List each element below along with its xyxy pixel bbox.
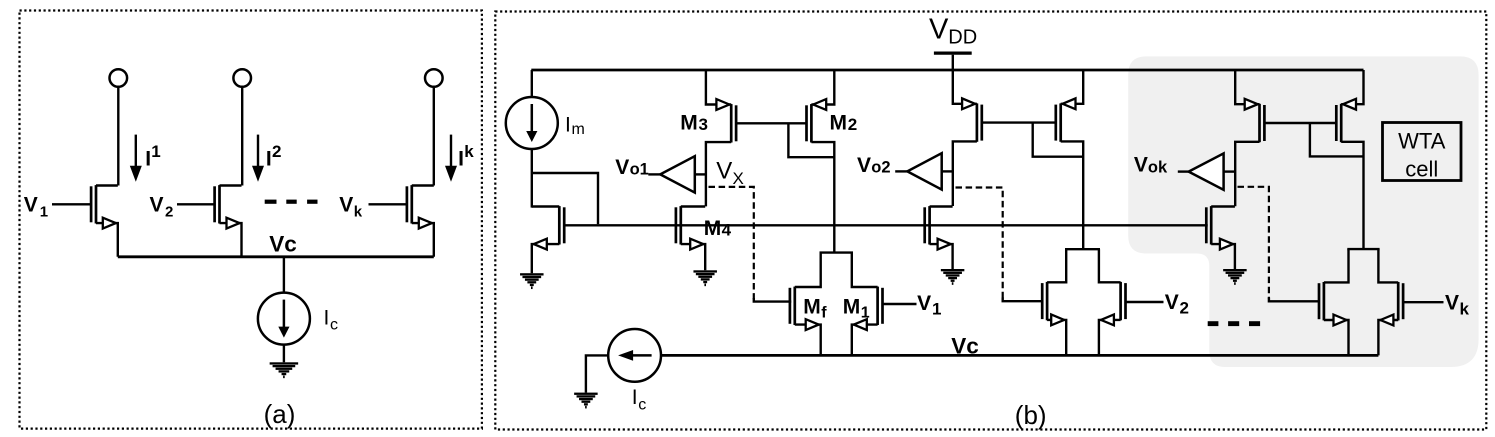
svg-text:M: M — [843, 295, 861, 318]
svg-text:2: 2 — [272, 142, 281, 161]
wire Im to Mb drain — [531, 149, 533, 208]
label Vo1 — [615, 156, 649, 179]
svg-text:M: M — [680, 112, 698, 135]
transistor M3' (cell2) — [953, 70, 982, 206]
transistor Mf — [790, 253, 821, 356]
svg-text:2: 2 — [1180, 299, 1189, 318]
open terminal node 2 — [233, 69, 251, 87]
transistor Vk (panel a) — [369, 185, 434, 257]
svg-text:f: f — [821, 304, 827, 321]
label Mf — [803, 295, 827, 321]
svg-text:V: V — [857, 154, 871, 177]
WTA cell box — [1383, 123, 1462, 182]
gate wire cell3 pmos pair — [1264, 122, 1336, 124]
svg-text:3: 3 — [699, 115, 708, 134]
transistor M2'' (cell3) — [1336, 70, 1363, 249]
label VDD — [929, 13, 977, 48]
svg-text:k: k — [1460, 300, 1470, 319]
node Vc rail (panel b) — [661, 354, 1378, 357]
label V2 (panel b) — [1165, 291, 1189, 318]
svg-text:M: M — [830, 112, 848, 135]
label Vk (panel b) — [1445, 292, 1470, 319]
label Im — [565, 114, 585, 138]
svg-text:ok: ok — [1148, 158, 1168, 176]
transistor M3 — [706, 70, 736, 206]
label M1 — [843, 295, 870, 321]
wire drain1 to terminal — [117, 87, 119, 186]
svg-text:V: V — [1165, 291, 1179, 314]
svg-text:V: V — [716, 157, 732, 184]
svg-text:I: I — [565, 114, 571, 137]
svg-text:I: I — [458, 147, 464, 170]
svg-text:c: c — [638, 397, 646, 414]
svg-text:1: 1 — [151, 142, 160, 161]
M2'' diode connection — [1310, 123, 1364, 156]
transistor Mf' (cell2) — [1042, 249, 1066, 355]
VDD supply bar — [934, 51, 972, 54]
current source Im — [506, 97, 558, 149]
label M2 — [830, 112, 858, 135]
svg-text:1: 1 — [932, 300, 941, 319]
svg-text:cell: cell — [1405, 156, 1438, 181]
transistor M4' (cell2) — [925, 206, 953, 269]
M2 diode connection — [788, 123, 834, 157]
gate wire cell2 pmos pair — [982, 121, 1056, 123]
transistor M1'' (cell3) — [1378, 249, 1443, 355]
svg-text:2: 2 — [848, 115, 857, 134]
transistor V2 (panel a) — [177, 185, 242, 257]
svg-text:(b): (b) — [1015, 400, 1047, 430]
diode connection wire Mb — [532, 173, 598, 224]
transistor M2 — [807, 70, 835, 253]
transistor Mf'' (cell3) — [1319, 249, 1349, 355]
transistor M4'' (cell3) — [1206, 206, 1235, 269]
caption (a) — [264, 399, 296, 429]
ellipsis dashes (panel a) — [265, 200, 318, 204]
buffer Vok — [1178, 153, 1235, 189]
label V2 — [150, 193, 174, 220]
svg-text:V: V — [917, 292, 931, 315]
label I1 — [145, 142, 161, 171]
bias gate line — [564, 224, 1207, 226]
ellipsis dashes (panel b) — [1208, 321, 1260, 326]
current arrow Ik — [445, 135, 457, 182]
label Vo2 — [857, 154, 891, 177]
label Vc (panel a) — [269, 232, 297, 257]
ground M4' (cell2) — [941, 269, 965, 285]
svg-text:V: V — [1445, 292, 1459, 315]
svg-text:Vc: Vc — [951, 333, 979, 358]
ground (panel a) — [270, 362, 299, 378]
current arrow I2 — [252, 135, 264, 182]
svg-text:Vc: Vc — [269, 232, 297, 257]
wire Ic to ground — [283, 345, 285, 363]
ground M4'' (cell3) — [1223, 269, 1247, 285]
svg-text:V: V — [24, 193, 38, 216]
transistor M1 — [852, 253, 917, 356]
WTA cell shaded region — [1128, 56, 1478, 367]
label Vk — [339, 193, 363, 220]
gate wire M3-M2 — [736, 122, 806, 124]
wire VDD to rail — [952, 55, 954, 70]
svg-text:c: c — [330, 317, 338, 334]
svg-text:1: 1 — [861, 304, 870, 321]
transistor V1 (panel a) — [52, 185, 118, 257]
M2' diode connection — [1033, 123, 1084, 157]
wire M4 drain up — [704, 205, 706, 207]
label Ik — [458, 142, 474, 171]
svg-text:M: M — [704, 217, 722, 240]
svg-text:I: I — [324, 307, 330, 330]
svg-text:V: V — [339, 193, 353, 216]
label Vok — [1134, 154, 1168, 177]
svg-text:o1: o1 — [630, 160, 649, 178]
svg-text:m: m — [572, 121, 585, 138]
node Vc rail (panel a) — [118, 255, 434, 258]
panel (a) dotted border — [20, 11, 482, 429]
ground Mb — [520, 273, 544, 289]
svg-text:2: 2 — [165, 203, 173, 220]
dashed node wire cell2 — [956, 188, 1042, 302]
drain plateau cell3 — [1347, 248, 1379, 250]
label Vc (panel b) — [951, 333, 979, 358]
current source Ic (panel b) — [608, 329, 661, 382]
svg-text:I: I — [632, 386, 638, 409]
svg-text:k: k — [464, 142, 474, 161]
svg-text:WTA: WTA — [1398, 129, 1446, 154]
svg-text:k: k — [354, 203, 363, 220]
caption (b) — [1015, 400, 1047, 430]
transistor Mb (bias mirror) — [532, 206, 564, 273]
svg-text:V: V — [615, 156, 629, 179]
dashed node wire cell3 — [1238, 187, 1320, 301]
open terminal node 1 — [110, 69, 128, 87]
svg-text:V: V — [150, 193, 164, 216]
panel (b) dotted border — [495, 12, 1486, 430]
wire rail to Im — [531, 70, 533, 97]
transistor M3'' (cell3) — [1235, 70, 1264, 206]
ground M4 — [693, 270, 717, 286]
svg-text:M: M — [803, 295, 821, 318]
label V1 (panel b) — [917, 292, 941, 319]
label V1 — [24, 193, 48, 220]
drain plateau cell1 — [820, 251, 854, 253]
label Ic (panel a) — [324, 307, 339, 334]
svg-text:o2: o2 — [871, 158, 890, 176]
label I2 — [266, 142, 282, 171]
label VX — [716, 157, 744, 188]
drain plateau cell2 — [1065, 248, 1100, 250]
current arrow I1 — [130, 135, 142, 182]
wire Vc to current source — [283, 257, 285, 293]
open terminal node 3 — [425, 69, 443, 87]
buffer Vo1 — [648, 156, 706, 192]
svg-text:X: X — [733, 169, 744, 188]
transistor M2' (cell2) — [1056, 70, 1083, 249]
svg-text:V: V — [1134, 154, 1148, 177]
svg-text:4: 4 — [722, 220, 732, 239]
svg-text:DD: DD — [948, 27, 977, 49]
wire drain2 to terminal — [241, 87, 243, 186]
svg-text:I: I — [145, 147, 151, 170]
transistor M1' (cell2) — [1099, 249, 1164, 355]
svg-text:1: 1 — [40, 203, 48, 220]
wire Ic to ground (panel b) — [586, 355, 608, 392]
label M4 — [704, 217, 732, 240]
wire drain3 to terminal — [433, 87, 435, 186]
VDD rail — [531, 69, 1363, 72]
svg-text:V: V — [929, 13, 949, 45]
current source Ic (panel a) — [258, 293, 310, 345]
label Ic (panel b) — [632, 386, 646, 414]
transistor M4 — [676, 206, 705, 270]
svg-text:I: I — [266, 147, 272, 170]
svg-text:(a): (a) — [264, 399, 296, 429]
dashed node VX wire — [709, 187, 792, 302]
buffer Vo2 — [895, 153, 953, 189]
ground Ic (panel b) — [574, 393, 598, 409]
label M3 — [680, 112, 708, 135]
